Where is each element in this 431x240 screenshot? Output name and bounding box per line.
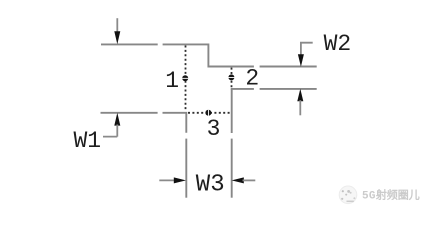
wire port2 bottom edge left segment — [231, 88, 254, 90]
node port 1 marker — [182, 75, 188, 81]
wire port2 top edge right segment — [260, 66, 317, 68]
wire port1 top edge left segment — [101, 43, 158, 45]
node port 1 reference plane (dotted) — [185, 46, 187, 112]
dimension W2 top arrow + leader — [298, 43, 313, 67]
wire port1 bottom edge right segment + port3 left edge upper — [163, 113, 187, 133]
svg-text:2: 2 — [245, 66, 259, 92]
node port 3 marker — [205, 110, 211, 116]
wire port3 right edge upper segment — [231, 89, 233, 133]
node port 3 reference plane (dotted) — [188, 112, 231, 114]
svg-text:W3: W3 — [196, 172, 225, 199]
dimension W1 bottom arrow + leader — [103, 113, 120, 137]
svg-text:5G射频圈儿: 5G射频圈儿 — [362, 188, 420, 203]
node port 2 reference plane (dotted) — [231, 68, 233, 88]
wire port3 right edge lower segment — [231, 139, 233, 198]
dimension W1 top arrow — [114, 18, 120, 44]
svg-text:W2: W2 — [324, 31, 352, 57]
dimension W3 right arrow — [232, 177, 256, 183]
dimension W3 left arrow — [159, 177, 186, 183]
node port 2 marker — [228, 74, 234, 80]
svg-text:1: 1 — [165, 68, 179, 94]
svg-text:W1: W1 — [74, 128, 102, 154]
dimension W2 bottom arrow — [297, 89, 303, 116]
wire port1 bottom edge left segment — [101, 112, 158, 114]
svg-text:3: 3 — [207, 116, 221, 142]
watermark logo — [339, 186, 357, 204]
wire port1 top edge right segment + step down + port2 top edge — [163, 44, 254, 66]
wire port2 bottom edge right segment — [260, 88, 317, 90]
wire port3 left edge lower segment — [185, 139, 187, 198]
